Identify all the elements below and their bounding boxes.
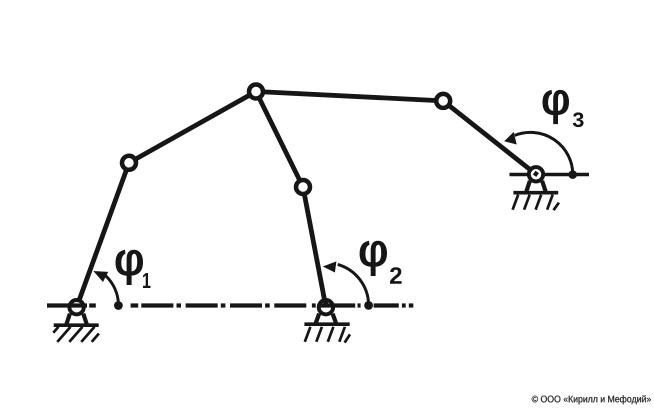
label phi3 subscript 3 [573,112,584,127]
node dot phi1 origin [114,301,123,310]
angle arc phi2 [338,264,369,304]
ground hatching G2 [305,327,350,343]
axis line through G3 [510,173,590,177]
ground hatching G1 [53,327,99,342]
link C-G2 (middle crank) [303,187,326,307]
node dot phi2 origin [364,301,373,310]
link B-A [129,92,256,163]
link C-G2 stub inside pivot [323,300,328,308]
arrowhead phi1 [93,271,108,282]
angle arc phi3 [515,132,573,174]
node dot phi3 origin [568,170,577,179]
arrowhead phi2 [323,261,337,272]
joint C (middle) [296,180,310,194]
ground base G2 [304,322,349,326]
label phi1 subscript 1 [143,273,151,288]
pivot G2 circle [319,300,333,314]
link D-G3 (right crank) [443,101,536,174]
ground base G1 [54,323,99,327]
joint D (right) [436,94,450,108]
joint A (top) [249,85,263,99]
ground support G2 pedestal [316,314,336,323]
link A-D (top coupler) [256,92,443,101]
label phi2 [360,241,387,276]
ground hatching G3 [513,195,559,211]
ground support G3 pedestal [526,181,545,192]
pivot G3 circle [529,167,543,181]
joint B (left) [122,156,136,170]
label phi2 subscript 2 [390,267,402,284]
link A-C [256,92,303,188]
ground support G1 pedestal [67,314,87,324]
link G1-B (left crank) [77,163,129,307]
link D-G3 stub inside pivot [534,173,537,175]
centerline (dash-dot axis) [47,303,413,307]
angle arc phi1 [106,276,119,305]
pivot G1 circle [69,300,83,314]
label phi3 [543,90,570,124]
ground base G3 [513,191,558,195]
arrowhead phi3 [504,132,517,145]
label phi1 [116,250,144,285]
